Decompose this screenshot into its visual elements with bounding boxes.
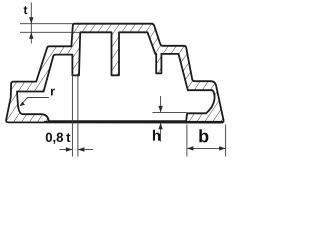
dimension h: lower arrow pointing up	[160, 123, 162, 141]
dimension t: lower extension line	[20, 31, 79, 33]
svg-text:b: b	[198, 126, 209, 146]
leader r arrowhead	[20, 102, 26, 107]
svg-text:h: h	[152, 128, 161, 145]
dimension t: upper extension line	[20, 23, 73, 25]
dimension 0,8t: right dimension line with arrowhead	[78, 149, 93, 151]
dimension h: upper arrow pointing down	[160, 96, 162, 112]
dimension 0,8t: left extension line	[71, 74, 73, 157]
leader line for fillet radius r	[20, 98, 49, 106]
dimension h: extension line at rim top	[153, 111, 187, 113]
dimension 0,8t: left dimension line with arrowhead	[60, 149, 73, 151]
dimension 0,8t: right extension line	[77, 74, 79, 157]
dimension b: right extension line	[225, 125, 227, 157]
dimension t: arrowhead pointing up	[29, 32, 33, 39]
dimension b: dimension line with outward arrowheads	[187, 147, 225, 149]
dimension b: left extension line	[186, 125, 188, 157]
dimension t: arrowhead pointing down	[29, 17, 33, 24]
dimension t: vertical dimension line	[30, 3, 32, 44]
svg-text:t: t	[23, 3, 27, 17]
ribbed casting cross-section body with section hatching	[6, 24, 223, 123]
base bottom edge line	[44, 121, 224, 123]
svg-text:0,8 t: 0,8 t	[45, 130, 71, 145]
svg-text:r: r	[50, 84, 55, 98]
